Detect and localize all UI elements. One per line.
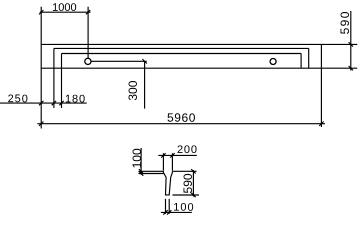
panel outer outline bottom edge with extension to 590 dim	[41, 67, 357, 69]
dim 1000 line	[40, 11, 91, 13]
svg-text:5960: 5960	[167, 111, 196, 125]
dim 100 left vertical line	[140, 148, 142, 175]
panel middle outline left edge with extension to 180 dim	[53, 48, 55, 108]
dim 250/180 line	[0, 102, 87, 104]
dim 300 vertical line	[144, 61, 146, 108]
dim 300 tick	[142, 59, 146, 63]
dim 1000 tick left	[39, 10, 43, 14]
dim 5960 line	[37, 123, 325, 125]
dim 590 detail vertical line	[192, 170, 194, 196]
svg-text:180: 180	[65, 93, 86, 105]
svg-text:100: 100	[130, 148, 144, 168]
dim 1000 tick right	[86, 10, 90, 14]
dim 100 bottom tick right	[167, 210, 171, 214]
dim 180 tick right	[59, 101, 63, 105]
svg-text:200: 200	[177, 144, 198, 156]
panel inner outline left edge with extension to 180 dim	[61, 54, 63, 109]
dim 300 leader from hole	[91, 60, 147, 62]
hole right	[270, 59, 276, 65]
svg-text:1000: 1000	[52, 2, 76, 14]
detail plate top surface line right	[172, 170, 196, 172]
dim 250 tick left	[39, 101, 43, 105]
panel middle outline right edge	[308, 48, 310, 68]
dim 100 bottom extension line left	[165, 199, 167, 214]
dim 100 bottom tick left	[163, 210, 167, 214]
dim 590 line right	[350, 11, 352, 71]
dim 590 tick bottom	[349, 66, 353, 70]
dim 200 tick left	[161, 153, 165, 157]
dim 200 line	[158, 154, 197, 156]
svg-text:300: 300	[126, 80, 140, 100]
detail funnel and stem profile	[163, 171, 172, 195]
dim 590 detail tick bottom	[191, 193, 195, 197]
panel outer outline left edge with extension lines	[40, 7, 42, 129]
dim 100 left tick top	[139, 169, 143, 173]
svg-text:590: 590	[338, 10, 352, 34]
dim 100 bottom line	[161, 211, 192, 213]
svg-text:590: 590	[181, 173, 195, 193]
panel outer outline top edge with extension to 590 dim	[41, 43, 357, 45]
dim 590 detail bottom extension line	[173, 194, 199, 196]
hole left	[85, 58, 91, 64]
detail plate bottom surface line left	[139, 173, 164, 175]
dim 5960 tick right	[319, 122, 323, 126]
panel inner outline right edge	[300, 54, 302, 69]
detail plate top surface line left	[139, 170, 164, 172]
dim 100 left tick bottom	[139, 171, 143, 175]
svg-text:100: 100	[173, 202, 194, 214]
dim 200 extension line left	[162, 153, 164, 171]
dim 250/180 tick middle	[52, 101, 56, 105]
dim 590 detail tick top	[191, 169, 195, 173]
dim 590 tick top	[349, 42, 353, 46]
dim 100 bottom extension line right	[168, 199, 170, 214]
panel inner outline top edge	[62, 53, 302, 55]
dim 1000 extension line to hole	[87, 7, 89, 58]
dim 200 extension line right	[171, 153, 173, 171]
panel outer outline right edge with extension to 5960 dim	[320, 44, 322, 127]
svg-text:250: 250	[8, 93, 29, 105]
panel middle outline top edge	[54, 47, 309, 49]
dim 200 tick right	[170, 153, 174, 157]
dim 5960 tick left	[39, 122, 43, 126]
